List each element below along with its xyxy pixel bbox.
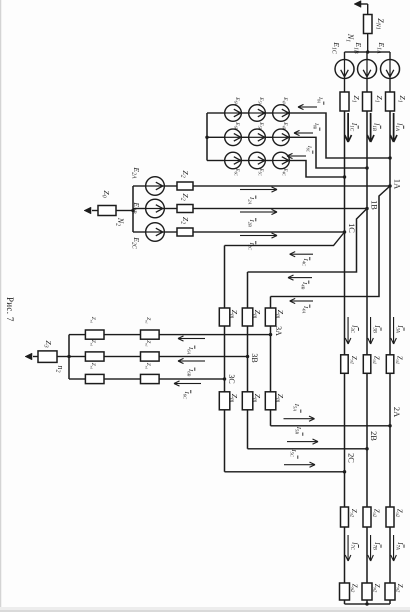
arrow I6B [178,360,205,362]
bus n2 [68,335,70,379]
node 2B [365,447,368,450]
wire riser C low [133,231,146,233]
wire grid [241,160,248,162]
node 2A [388,424,391,427]
svg-text:2В: 2В [369,431,378,441]
wire 1B to mid [248,209,368,273]
wire 1A to mid [271,186,391,297]
resistor Zl2 bus B [363,507,371,527]
wire riser A low [133,185,146,187]
arrow I2B [240,211,277,213]
svg-text:1А: 1А [393,179,402,189]
grid step wire A [289,113,390,158]
source E grid b1 c1 [249,129,266,146]
resistor Zt2 A [265,392,276,410]
svg-text:2А: 2А [392,407,401,417]
arrow I1A [393,113,395,142]
arrow I3B [370,317,372,344]
wire riser C mid [164,231,177,233]
ground N2 [84,207,91,214]
source E2A [146,177,165,196]
resistor Zl1 bus C [341,355,349,374]
wire riser 2A [271,425,391,427]
arrow I5B [287,441,318,443]
arrow I4C [290,253,313,255]
wire Z_N1 to N1 [367,34,369,53]
source E grid b2 c1 [249,152,266,169]
right end connector [345,603,391,605]
source E2C [146,223,165,242]
arrow I2A [240,189,277,191]
node N1 [366,50,369,53]
wire N1 bus [345,51,391,53]
arrow I7C [347,535,349,561]
wire grid [241,136,248,138]
resistor Z1 phase A [386,92,395,111]
arrow I2C [240,235,277,237]
wire riser A mid [164,185,177,187]
wire N2 to ZN0 [116,210,133,212]
drop B wire lower [69,356,85,358]
resistor Zl1 bus A [386,355,394,374]
resistor Zl2 bus C [341,507,349,527]
bus C [344,111,346,604]
svg-text:3С: 3С [227,374,236,383]
svg-text:2С: 2С [347,453,356,463]
mid line A [270,297,272,426]
bus A [389,111,391,604]
resistor Zl2 bus A [386,507,394,527]
arrow I7A [393,535,395,561]
resistor Z1 phase C [340,92,349,111]
resistor Zn2 bus A [385,583,395,600]
node N2 bus [132,186,134,232]
resistor Z2 C [177,228,193,236]
arrow I3C [347,317,349,344]
mid line B [247,272,249,449]
junction bus C / grid [343,175,346,178]
wire n2 to Z3 [57,356,69,358]
arrow I6A [178,338,205,340]
arrow I8B [294,132,313,134]
svg-text:3В: 3В [250,353,259,362]
wire Z3 to ground [33,356,38,358]
wire E1B [366,52,368,60]
arrow I1C [347,113,349,142]
source E grid b2 c2 [225,152,242,169]
arrow I4B [288,277,312,279]
source E1C [335,60,354,79]
resistor Zt1 A [265,308,276,326]
wire ground to Z_N1 [367,4,369,15]
wire riser 2A upper [193,185,390,187]
resistor Zt1 B [242,308,253,326]
source E grid b0 c2 [225,105,242,122]
source E2B [146,199,165,218]
wire E1C [344,52,346,60]
node 1B [365,207,368,210]
resistor Zn1 B [85,352,104,361]
wire E1B to Z1B [366,79,368,93]
drop C wire lower [69,378,85,380]
wire N1 to E1A [389,52,391,60]
resistor Zn2 bus C [340,583,350,600]
resistor Z2 A [177,182,193,190]
wire grid [241,112,248,114]
source E grid b1 c0 [273,129,290,146]
ground n2 [25,353,32,360]
node 1A [388,184,391,187]
wire E1C to Z1C [344,79,346,93]
ground N1 [361,3,368,5]
wire grid [265,112,272,114]
resistor Z1 phase B [363,92,372,111]
node 3C [223,377,226,380]
source E1A [381,60,400,79]
wire riser 2B upper [193,208,367,210]
svg-text:Рис. 7: Рис. 7 [5,297,15,322]
faint page left edge [0,0,2,612]
arrow I8A [298,106,317,108]
wire E1A to Z1A [389,79,391,93]
wire grid [265,136,272,138]
wire riser 2B [248,448,368,450]
junction bus B / grid [365,166,368,169]
arrow I7B [370,535,372,561]
grid bottom bus [206,113,208,161]
arrow I5A [284,418,315,420]
wire ZN0 to ground [92,210,98,212]
arrow I5C [284,464,315,466]
arrow I8C [287,155,306,157]
resistor Z2 B [177,205,193,213]
resistor Zn2 bus B [362,583,372,600]
drop A wire lower [69,334,85,336]
source E grid b2 c0 [273,152,290,169]
resistor Zt1 C [219,308,230,326]
resistor Zt2 B [242,392,253,410]
node 3A [269,333,272,336]
junction bus A / grid [388,156,391,159]
resistor Z_N1 [364,15,373,34]
drop 3B wire upper [159,356,248,358]
grid bottom wires [207,112,225,114]
source E grid b0 c0 [273,105,290,122]
wire 1C to mid [225,232,345,246]
grid step wire C [289,161,344,178]
svg-text:3А: 3А [274,326,283,336]
arrow I3A [393,317,395,344]
source E grid b0 c1 [249,105,266,122]
source E grid b1 c2 [225,129,242,146]
resistor Z3 [38,351,57,363]
resistor Zl2 B [141,352,160,361]
resistor Zn1 C [85,374,104,383]
wire riser 2C upper [193,231,345,233]
grid step wire B [289,137,367,168]
source E1B [358,60,377,79]
wire grid [265,160,272,162]
arrow I4A [290,300,313,302]
resistor Zt2 C [219,392,230,410]
node 2C [343,470,346,473]
node 3B [246,355,249,358]
node 1C [343,230,346,233]
drop B wire mid [104,356,141,358]
wire riser 2C [225,471,345,473]
arrow I6C [174,383,201,385]
svg-text:1В: 1В [370,200,379,210]
wire riser B mid [164,208,177,210]
svg-text:1С: 1С [347,223,356,233]
bus B [366,111,368,604]
resistor Z_N0 [98,206,116,216]
resistor Zl2 C [141,374,160,383]
wire riser B low [133,208,146,210]
drop C wire mid [104,378,141,380]
arrow I1B [370,113,372,142]
drop 3A wire upper [159,334,271,336]
drop A wire mid [104,334,141,336]
resistor Zl1 bus B [363,355,371,374]
drop 3C wire upper [159,378,225,380]
mid line C [224,246,226,472]
resistor Zl2 A [141,330,160,339]
faint page bottom edge [0,610,410,612]
resistor Zn1 A [85,330,104,339]
